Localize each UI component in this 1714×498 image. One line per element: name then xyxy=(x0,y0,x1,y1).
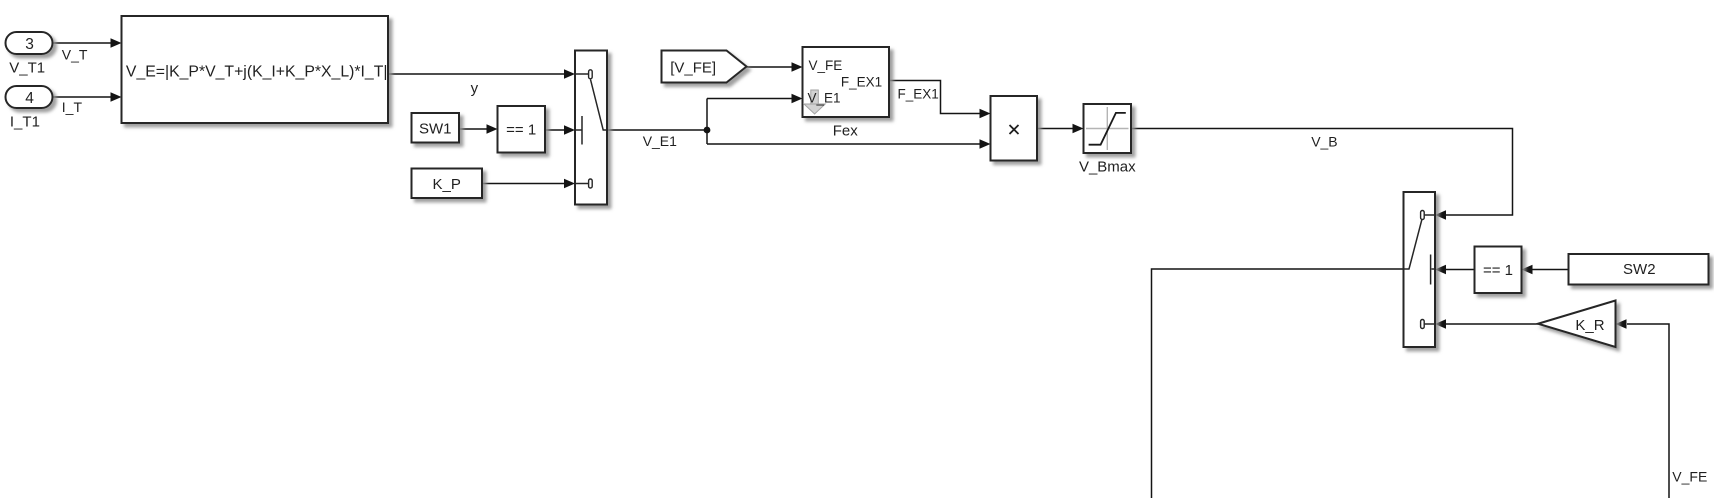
svg-text:V_FE: V_FE xyxy=(809,58,843,73)
svg-text:V_E=|K_P*V_T+j(K_I+K_P*X_L)*I_: V_E=|K_P*V_T+j(K_I+K_P*X_L)*I_T| xyxy=(126,63,388,80)
svg-text:F_EX1: F_EX1 xyxy=(898,87,939,102)
svg-text:3: 3 xyxy=(25,36,34,53)
svg-text:[V_FE]: [V_FE] xyxy=(670,60,716,77)
svg-text:V_B: V_B xyxy=(1311,133,1337,149)
svg-text:Fex: Fex xyxy=(833,122,859,139)
svg-text:I_T: I_T xyxy=(62,99,83,115)
svg-text:SW2: SW2 xyxy=(1623,261,1656,278)
svg-text:V_E1: V_E1 xyxy=(808,91,841,106)
svg-text:V_T1: V_T1 xyxy=(9,60,45,77)
svg-text:4: 4 xyxy=(25,90,34,107)
svg-text:y: y xyxy=(471,80,479,97)
svg-text:K_R: K_R xyxy=(1575,317,1604,334)
svg-text:== 1: == 1 xyxy=(1483,262,1513,279)
svg-text:V_E1: V_E1 xyxy=(643,133,677,149)
svg-text:I_T1: I_T1 xyxy=(10,114,40,131)
svg-text:V_Bmax: V_Bmax xyxy=(1079,159,1136,176)
svg-text:V_FE: V_FE xyxy=(1672,468,1707,484)
svg-text:F_EX1: F_EX1 xyxy=(841,74,882,89)
svg-text:V_T: V_T xyxy=(62,47,88,63)
svg-text:K_P: K_P xyxy=(433,176,461,193)
svg-text:SW1: SW1 xyxy=(419,121,452,138)
svg-text:== 1: == 1 xyxy=(506,122,536,139)
